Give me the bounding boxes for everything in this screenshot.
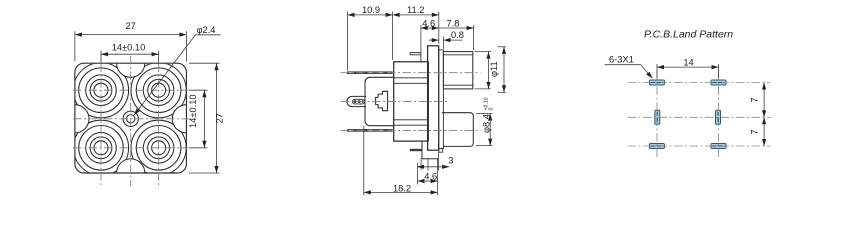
notch bottom edge (117, 159, 145, 173)
leader 6-3X1 (605, 64, 641, 66)
ext lines bottom (420, 159, 422, 170)
dim 0.8 (443, 37, 445, 50)
dim phi11 inner (475, 51, 492, 53)
svg-text:11.2: 11.2 (407, 5, 424, 15)
svg-text:7: 7 (750, 129, 760, 134)
pad row3 right (711, 144, 726, 149)
svg-text:3: 3 (448, 155, 453, 165)
svg-text:14±0.10: 14±0.10 (112, 43, 146, 53)
arrows 0.8 (432, 38, 439, 42)
jack A circles (79, 68, 124, 113)
svg-text:6-3X1: 6-3X1 (609, 55, 634, 65)
pocket arc around jack A (top-left) (73, 63, 186, 176)
svg-text:φ8.4: φ8.4 (482, 114, 492, 133)
svg-text:7.8: 7.8 (447, 18, 460, 28)
notch right edge (172, 105, 186, 133)
svg-text:18.2: 18.2 (393, 184, 411, 194)
dim phi8.4 (476, 113, 493, 115)
arrows 7 upper (762, 83, 766, 90)
top tab on body (410, 53, 421, 55)
lug slot hatch (354, 100, 364, 103)
pocket arc around jack B (top-right) (131, 63, 186, 118)
lug slot (353, 99, 365, 104)
centerlines front view (73, 56, 191, 186)
notch top edge (117, 63, 145, 77)
ext/dim 10.9 / 11.2 (347, 12, 349, 71)
svg-text:0: 0 (488, 108, 494, 111)
horizontal centerline row 2 (628, 116, 771, 118)
top jack inner line upper (443, 54, 472, 56)
dim 14 right (189, 89, 208, 91)
arrows 10.9/11.2 (348, 13, 355, 17)
dim line 7x2 (763, 83, 765, 147)
pad row1 right (711, 80, 726, 85)
axis bottom jack (341, 129, 481, 131)
arrows 14 top (101, 52, 108, 56)
svg-text:4.6: 4.6 (422, 18, 435, 28)
bottom jack barrel (442, 113, 474, 147)
svg-text:27: 27 (214, 113, 224, 123)
arrows dim 3 (417, 165, 424, 169)
pad row3 right centermark (712, 145, 724, 147)
pad row1 right centermark (712, 82, 724, 84)
main body block (394, 62, 429, 141)
pad row2 right (vertical) (716, 110, 721, 124)
land pattern dimensions (605, 64, 765, 146)
dim 3 (417, 166, 449, 168)
pcb plate 0.8 (439, 50, 444, 149)
svg-text:7: 7 (750, 97, 760, 102)
axis middle (341, 101, 447, 103)
body interior line 1 (394, 77, 429, 79)
arrows 4.6/7.8 top (421, 26, 428, 30)
svg-text:0.8: 0.8 (451, 30, 464, 40)
pad row2 left centermark (656, 112, 658, 124)
bottom small pin under body (410, 149, 422, 151)
arrows dim 18.2 (364, 190, 371, 194)
bottom stem (422, 141, 439, 159)
pocket arc around jack D (bottom-right) (131, 120, 186, 175)
arrows dim 4.6 bottom (418, 179, 425, 183)
leader phi2.4 (196, 34, 221, 36)
arrow leader 6-3X1 (646, 72, 652, 79)
dim 4.6 bottom (418, 180, 438, 182)
arrow phi2.4 leader (134, 108, 140, 115)
dim 27 top (74, 31, 76, 61)
bottom pin (347, 129, 393, 132)
arrows 27 right (214, 63, 218, 70)
body interior line 2 (394, 82, 429, 84)
pocket arc around jack C (bottom-left) (73, 120, 128, 175)
notch left edge (75, 105, 89, 133)
horizontal centerline row 3 (628, 145, 771, 147)
body interior line 3 (394, 119, 429, 121)
side view centerlines (341, 73, 481, 131)
dim 27 right (189, 62, 220, 64)
vertical centerline left column (656, 71, 658, 158)
arrows 7 lower (762, 117, 766, 124)
top jack barrel (443, 52, 472, 89)
axis top jack (341, 72, 481, 74)
center bush circles phi2.4 (123, 111, 138, 126)
jack D circles (136, 126, 181, 171)
svg-text:14: 14 (683, 57, 693, 67)
svg-text:4.6: 4.6 (424, 171, 437, 181)
mounting flange plate (428, 46, 439, 150)
side view dimensions (348, 12, 507, 196)
svg-text:P.C.B.Land Pattern: P.C.B.Land Pattern (644, 29, 733, 41)
ext lines 14 (656, 64, 658, 78)
pad row2 right centermark (717, 112, 719, 124)
svg-text:φ2.4: φ2.4 (197, 25, 216, 35)
body interior line 4 (394, 124, 429, 126)
arrows 14 right (202, 90, 206, 97)
pad row1 left (650, 80, 665, 85)
vertical centerline right column (718, 71, 720, 158)
arrows 14 (657, 65, 664, 69)
jack B circles (136, 68, 181, 113)
pad row2 left (vertical) (655, 110, 660, 124)
pad row3 left centermark (651, 145, 663, 147)
center contact (stepped) (376, 91, 388, 110)
dimensions front view (75, 31, 221, 173)
arrows phi8.4 (488, 114, 492, 121)
arrows phi11 outer (502, 47, 506, 54)
arrows 27 top (75, 33, 82, 37)
top jack inner line lower (443, 84, 472, 86)
dim 18.2 (364, 191, 438, 193)
dim 14 top (100, 51, 102, 64)
dim line 14 (657, 66, 719, 68)
svg-text:φ11: φ11 (489, 61, 499, 77)
pad row1 left centermark (651, 82, 663, 84)
horizontal centerline row 1 (628, 82, 771, 84)
arrows phi11 inner (486, 52, 490, 59)
svg-text:27: 27 (126, 21, 136, 31)
lug bracket plate (365, 77, 394, 125)
pad row3 left (650, 144, 665, 149)
land pattern centerlines (628, 71, 771, 158)
ext/dim 4.6 / 7.8 top (420, 25, 422, 53)
jack C circles (79, 126, 124, 171)
ground lug (347, 96, 366, 106)
dim phi11 outer (498, 46, 507, 48)
front body outline 27x27 (75, 63, 186, 173)
svg-text:14±0.10: 14±0.10 (188, 94, 198, 128)
top pin (347, 71, 393, 74)
plate bottom foot (439, 149, 443, 153)
svg-text:10.9: 10.9 (362, 5, 380, 15)
tab riser line (420, 55, 422, 62)
